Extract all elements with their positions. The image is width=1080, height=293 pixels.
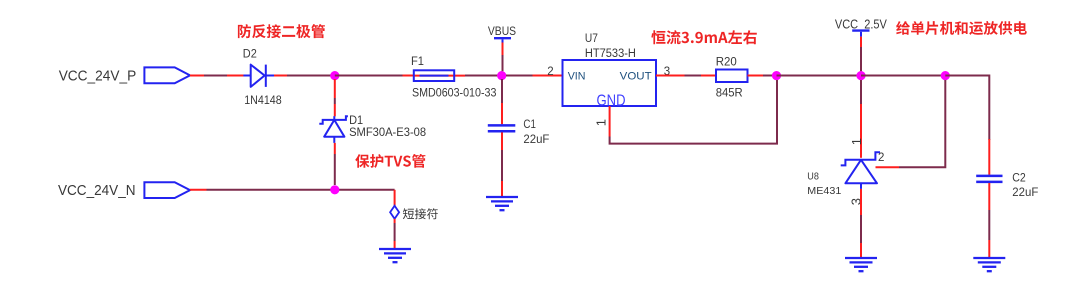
ground diamond	[379, 249, 411, 262]
svg-text:U7: U7	[585, 31, 598, 45]
short connector diamond	[390, 206, 399, 219]
junction node B	[497, 71, 506, 80]
wire D2-to-A	[274, 75, 335, 77]
capacitor C2	[976, 176, 1002, 182]
ground C1	[486, 197, 518, 210]
annotation text 恒流3.9mA左右	[651, 30, 757, 44]
label R20	[716, 55, 737, 69]
wire VBUS-to-B	[502, 43, 504, 72]
svg-text:GND: GND	[597, 92, 626, 109]
value 1N4148	[244, 93, 282, 107]
wire C2-to-gnd	[988, 183, 990, 258]
wire D-to-E	[861, 75, 945, 77]
ground C2	[973, 258, 1005, 271]
pin number 1 U7	[594, 119, 609, 126]
wire C-to-D	[777, 75, 862, 77]
svg-text:2: 2	[878, 152, 884, 164]
wire D1-to-F	[334, 143, 336, 185]
junction node F	[330, 185, 339, 194]
wire B-to-C1	[501, 79, 503, 124]
label VCC_24V_P	[59, 68, 137, 84]
wire U8-to-gnd	[860, 189, 862, 258]
svg-text:2: 2	[547, 66, 553, 78]
wire C1-to-gnd	[501, 132, 503, 197]
annotation text 保护TVS管	[355, 154, 425, 168]
svg-text:VIN: VIN	[568, 71, 586, 83]
svg-text:HT7533-H: HT7533-H	[585, 46, 636, 60]
svg-text:R20: R20	[716, 55, 737, 69]
value 845R	[716, 85, 743, 99]
net label VBUS	[488, 24, 516, 43]
wire VCC2.5-to-D	[860, 37, 862, 72]
value SMF30A-E3-08	[349, 125, 426, 139]
wire E-to-C2	[945, 76, 989, 141]
svg-text:C2: C2	[1012, 170, 1026, 184]
svg-text:SMF30A-E3-08: SMF30A-E3-08	[349, 125, 426, 139]
value ME431	[807, 186, 841, 197]
label D2	[243, 47, 257, 61]
ground U8	[845, 258, 877, 271]
svg-text:1: 1	[849, 138, 864, 145]
svg-text:VOUT: VOUT	[620, 71, 652, 83]
wire A-to-D1	[334, 79, 336, 116]
wire F1-to-B	[465, 75, 502, 77]
value C1 22uF	[523, 132, 549, 146]
label C2	[1012, 170, 1026, 184]
resistor R20	[716, 70, 748, 83]
svg-text:22uF: 22uF	[523, 132, 549, 146]
label 短接符	[403, 208, 438, 219]
port VCC_24V_N	[144, 182, 190, 198]
pin number 3	[664, 66, 670, 78]
pin number 2 U8	[878, 152, 884, 164]
pin name VIN	[568, 71, 586, 83]
wire U8-pin2	[876, 80, 946, 167]
op-amp U7 regulator box	[563, 60, 657, 106]
svg-text:VCC_24V_P: VCC_24V_P	[59, 68, 137, 84]
svg-text:22uF: 22uF	[1012, 185, 1038, 199]
diode D2	[243, 65, 274, 87]
wire N-line	[190, 189, 395, 191]
shunt reference U8	[841, 152, 880, 189]
annotation text 防反接二极管	[238, 24, 325, 38]
value C2 22uF	[1012, 185, 1038, 199]
svg-text:D2: D2	[243, 47, 257, 61]
pin number 3 U8	[848, 198, 863, 205]
wire R20-to-C	[748, 75, 777, 77]
label VCC_24V_N	[58, 183, 136, 199]
svg-text:C1: C1	[523, 117, 536, 131]
label C1	[523, 117, 536, 131]
svg-text:U8: U8	[807, 171, 819, 182]
TVS diode D1	[319, 116, 348, 143]
junction node D	[856, 71, 865, 80]
wire diamond-to-gnd	[394, 219, 396, 249]
junction node C	[772, 71, 781, 80]
wire D-to-U8	[860, 80, 862, 158]
annotation text 给单片机和运放供电	[896, 21, 1027, 35]
svg-text:1: 1	[594, 119, 609, 126]
wire P-to-D2	[190, 75, 244, 77]
wire corner-to-C2	[988, 139, 990, 175]
svg-text:F1: F1	[411, 54, 424, 68]
svg-text:VCC_24V_N: VCC_24V_N	[58, 183, 136, 199]
label U8	[807, 171, 819, 182]
label U7	[585, 31, 598, 45]
wire to-diamond	[394, 190, 396, 206]
value SMD0603-010-33	[412, 85, 497, 99]
pin name GND	[597, 92, 626, 109]
wire U7-GND-return	[610, 80, 777, 144]
port VCC_24V_P	[144, 67, 190, 83]
wire A-to-F1	[335, 75, 414, 77]
label F1	[411, 54, 424, 68]
wire U7-to-R20	[656, 75, 716, 77]
wire B-to-U7	[506, 75, 563, 77]
power port VCC_2.5V	[835, 18, 888, 37]
svg-text:VBUS: VBUS	[488, 24, 516, 38]
junction node A	[330, 71, 339, 80]
svg-text:ME431: ME431	[807, 186, 841, 197]
label D1	[349, 113, 363, 127]
value HT7533-H	[585, 46, 636, 60]
junction node E	[941, 71, 950, 80]
svg-text:845R: 845R	[716, 85, 743, 99]
capacitor C1	[488, 125, 516, 131]
pin number 2	[547, 66, 553, 78]
svg-text:1N4148: 1N4148	[244, 93, 282, 107]
pin name VOUT	[620, 71, 652, 83]
pin number 1 U8	[849, 138, 864, 145]
fuse F1	[414, 70, 465, 81]
svg-text:SMD0603-010-33: SMD0603-010-33	[412, 85, 497, 99]
